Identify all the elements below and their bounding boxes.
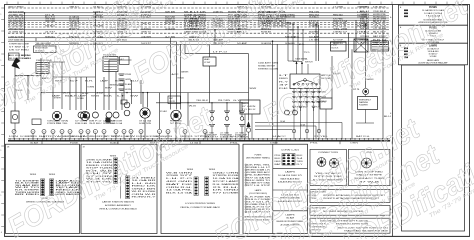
svg-text:R-Y STOP: R-Y STOP <box>333 40 344 42</box>
svg-text:16 GA 16 GA: 16 GA 16 GA <box>213 177 241 180</box>
svg-text:HEAD: HEAD <box>204 58 210 61</box>
svg-text:SW BLU: SW BLU <box>45 26 56 28</box>
svg-text:14 GA PNL: 14 GA PNL <box>166 189 192 192</box>
svg-text:GND DK: GND DK <box>357 7 368 9</box>
svg-text:GRN: GRN <box>87 87 95 89</box>
svg-text:DK BLK: DK BLK <box>373 6 387 8</box>
svg-text:R.H. YEL: R.H. YEL <box>230 136 244 138</box>
svg-text:MARKER: MARKER <box>181 71 189 74</box>
svg-text:462 W-B 30 AM: 462 W-B 30 AM <box>9 10 24 13</box>
svg-text:14 GA BLU: 14 GA BLU <box>285 42 296 45</box>
svg-text:(CLUSTER FEED): (CLUSTER FEED) <box>249 193 267 195</box>
svg-text:YEL BLK: YEL BLK <box>196 100 209 102</box>
svg-text:BLK 14 GA: BLK 14 GA <box>166 192 194 195</box>
svg-text:STOP LAMP: STOP LAMP <box>213 180 241 183</box>
svg-text:21: 21 <box>299 44 305 46</box>
svg-text:W-B ACC: W-B ACC <box>309 16 320 19</box>
svg-text:CLSTR: CLSTR <box>169 101 176 103</box>
svg-text:14401 ASSY TURN: 14401 ASSY TURN <box>258 62 279 65</box>
svg-text:TURN: TURN <box>297 161 304 163</box>
svg-text:CONN C-301: CONN C-301 <box>281 149 299 151</box>
svg-text:DOME RED ACC: DOME RED ACC <box>247 171 271 174</box>
svg-text:LAMP: LAMP <box>78 95 87 98</box>
svg-text:FUSES: FUSES <box>255 155 262 157</box>
svg-text:21 YEL: 21 YEL <box>314 136 328 138</box>
svg-text:21 GRN 640: 21 GRN 640 <box>9 32 25 34</box>
svg-text:WIRES: WIRES <box>209 169 216 171</box>
svg-text:A LIGHT GA) LPS HDR HEADLAMP: A LIGHT GA) LPS HDR HEADLAMP <box>419 62 449 65</box>
svg-text:ORN DOME: ORN DOME <box>45 21 56 23</box>
svg-text:462 GND: 462 GND <box>166 181 194 183</box>
svg-text:16 GA G-Y: 16 GA G-Y <box>429 53 439 56</box>
svg-text:BR 14 GA: BR 14 GA <box>165 22 176 25</box>
svg-text:21 54: 21 54 <box>373 25 388 27</box>
svg-text:LOOKS PRINTED WIRES: LOOKS PRINTED WIRES <box>185 203 216 205</box>
svg-text:SW: SW <box>130 96 139 98</box>
svg-text:L.H. 640: L.H. 640 <box>132 183 156 185</box>
svg-text:FEED: FEED <box>289 30 296 32</box>
svg-text:977 DOME: 977 DOME <box>213 193 241 195</box>
svg-text:MARKER BLU: MARKER BLU <box>261 27 272 30</box>
svg-text:W-R FUSE: W-R FUSE <box>132 191 158 193</box>
svg-text:PNL: PNL <box>310 143 318 145</box>
svg-text:BAT: BAT <box>39 135 48 138</box>
svg-text:30 AM: 30 AM <box>125 83 132 86</box>
svg-text:(INSTRUMENT PANEL): (INSTRUMENT PANEL) <box>246 156 270 159</box>
svg-text:LT GRN: LT GRN <box>333 7 344 9</box>
svg-text:HORN: HORN <box>125 89 132 91</box>
svg-text:PNL IGN: PNL IGN <box>309 11 320 13</box>
svg-text:PNL: PNL <box>275 155 281 157</box>
svg-text:FUSE BR: FUSE BR <box>261 32 272 34</box>
svg-text:298 977: 298 977 <box>166 175 192 177</box>
svg-text:L.H. GRN: L.H. GRN <box>309 40 320 42</box>
svg-text:RED DK: RED DK <box>132 186 158 188</box>
svg-text:DK 57 RED: DK 57 RED <box>9 50 30 52</box>
svg-text:BAT 57 FEED: BAT 57 FEED <box>9 6 25 9</box>
svg-text:54 ACC: 54 ACC <box>272 135 288 138</box>
svg-text:W-R L.H.: W-R L.H. <box>333 26 348 28</box>
svg-text:STRIPE: STRIPE <box>54 98 62 100</box>
svg-text:PNL TURN: PNL TURN <box>218 100 231 102</box>
svg-text:WIRES: WIRES <box>30 174 37 176</box>
svg-text:MARKER LAMPS: MARKER LAMPS <box>427 59 439 62</box>
svg-text:462: 462 <box>96 93 103 95</box>
svg-text:SW BR: SW BR <box>165 11 176 13</box>
svg-text:LP SW: LP SW <box>204 62 210 64</box>
svg-text:LAMPS: LAMPS <box>255 189 262 192</box>
svg-text:54: 54 <box>297 158 303 160</box>
svg-text:W-B FEED: W-B FEED <box>309 32 320 34</box>
svg-text:14 GA FUSE: 14 GA FUSE <box>261 42 272 45</box>
svg-text:R-Y 640 GND: R-Y 640 GND <box>9 26 25 28</box>
svg-text:HEATER: HEATER <box>242 102 250 105</box>
svg-text:SW: SW <box>126 136 136 138</box>
svg-text:LARGE STATION WAGON: LARGE STATION WAGON <box>102 201 135 204</box>
svg-text:37 GRN: 37 GRN <box>242 106 257 108</box>
svg-text:DOME TURN: DOME TURN <box>139 123 152 125</box>
svg-text:GND BR: GND BR <box>132 188 158 190</box>
svg-text:TO BLU: TO BLU <box>242 109 257 111</box>
svg-text:ORN R.H.: ORN R.H. <box>166 187 193 189</box>
svg-text:STRIPE BAT DOME: STRIPE BAT DOME <box>9 43 30 46</box>
svg-text:298: 298 <box>125 74 131 76</box>
svg-text:977 30 AM: 977 30 AM <box>373 27 386 30</box>
svg-text:FEED: FEED <box>279 78 289 80</box>
svg-text:LT P-O: LT P-O <box>213 52 228 54</box>
svg-text:LAMPS: LAMPS <box>285 171 296 174</box>
svg-text:57 SW G-Y: 57 SW G-Y <box>9 47 30 49</box>
svg-text:GND: GND <box>177 77 185 79</box>
svg-text:R.H. MARKER: R.H. MARKER <box>213 183 240 186</box>
svg-text:WIRES: WIRES <box>187 169 194 171</box>
svg-text:W-B: W-B <box>360 28 371 30</box>
svg-text:16 GA R 57: 16 GA R 57 <box>427 47 440 50</box>
svg-text:LAMP: LAMP <box>100 80 109 83</box>
svg-text:BAT 977: BAT 977 <box>205 136 218 139</box>
svg-text:STOP 30 AM GND: STOP 30 AM GND <box>9 39 24 42</box>
svg-text:MARKER GND: MARKER GND <box>285 16 295 19</box>
svg-text:FEED 14 GA: FEED 14 GA <box>110 122 123 125</box>
svg-text:SW: SW <box>105 87 113 89</box>
svg-text:VIEW A, CONNECTOR AND BACK: VIEW A, CONNECTOR AND BACK <box>99 207 138 210</box>
svg-text:37 ORN: 37 ORN <box>357 17 368 19</box>
svg-text:WIRES: WIRES <box>49 174 56 176</box>
svg-text:14 B-A 640: 14 B-A 640 <box>428 50 440 53</box>
svg-text:BLK BAT: BLK BAT <box>357 25 368 28</box>
svg-text:TURN SIGNAL: TURN SIGNAL <box>295 58 308 61</box>
svg-text:DK GND: DK GND <box>213 190 241 192</box>
svg-text:57: 57 <box>70 81 78 83</box>
svg-text:298 640 W-R: 298 640 W-R <box>9 28 25 30</box>
svg-text:HORN R-Y: HORN R-Y <box>132 197 158 199</box>
svg-text:A WIRED ASSEMBLY: A WIRED ASSEMBLY <box>105 204 132 207</box>
svg-text:SW: SW <box>249 88 257 90</box>
svg-text:977 L.H. STOP: 977 L.H. STOP <box>247 185 271 187</box>
svg-text:GRN R-Y: GRN R-Y <box>69 7 80 9</box>
svg-text:16 GA DK: 16 GA DK <box>285 22 296 25</box>
svg-text:HORN: HORN <box>115 81 124 83</box>
svg-text:BLOCK: BLOCK <box>332 48 339 50</box>
svg-text:54 977: 54 977 <box>141 43 151 45</box>
svg-text:FLASHER: FLASHER <box>359 104 368 107</box>
svg-text:54 LAMP: 54 LAMP <box>237 42 248 45</box>
svg-text:ACC TURN: ACC TURN <box>104 135 119 138</box>
svg-text:PNL 30 AM FEED: PNL 30 AM FEED <box>247 174 271 177</box>
svg-text:L.H. TURN: L.H. TURN <box>62 136 77 138</box>
svg-text:FEED: FEED <box>275 161 282 163</box>
svg-text:STEERING COLUMN: STEERING COLUMN <box>258 69 279 71</box>
svg-text:FUSE 30 AM: FUSE 30 AM <box>75 122 87 125</box>
svg-text:R.H.: R.H. <box>85 81 94 83</box>
svg-text:HORN 30 AM L.H.: HORN 30 AM L.H. <box>247 169 271 172</box>
svg-text:DOME 462 HORN: DOME 462 HORN <box>9 36 25 38</box>
svg-text:YEL 298: YEL 298 <box>333 28 347 30</box>
svg-text:ORN W-R: ORN W-R <box>132 194 158 196</box>
svg-text:CONNECTORS: CONNECTORS <box>318 152 339 154</box>
svg-text:298 BLK: 298 BLK <box>373 11 387 13</box>
svg-text:W-B LT DK: W-B LT DK <box>184 11 207 13</box>
svg-text:57 MARKER: 57 MARKER <box>309 25 320 28</box>
svg-text:LT L.H.: LT L.H. <box>357 32 368 34</box>
svg-text:FEED BLK: FEED BLK <box>333 14 344 16</box>
svg-text:L.H. P-O: L.H. P-O <box>166 178 194 180</box>
svg-text:BAT: BAT <box>275 163 281 166</box>
svg-text:L.H. 57: L.H. 57 <box>357 11 367 13</box>
svg-text:14 R-BK: 14 R-BK <box>430 56 438 58</box>
svg-text:BAT DK: BAT DK <box>166 183 195 186</box>
svg-text:STRIPE FUSE: STRIPE FUSE <box>213 175 241 177</box>
svg-text:298 YEL: 298 YEL <box>56 123 68 125</box>
svg-text:14 GA GRN: 14 GA GRN <box>165 27 176 30</box>
svg-text:FUSE: FUSE <box>332 45 338 47</box>
svg-text:21: 21 <box>294 37 300 39</box>
svg-text:GND ORN: GND ORN <box>213 172 241 174</box>
svg-text:ORN 57: ORN 57 <box>333 32 347 34</box>
svg-text:VIEW A, CONNECTOR AND BACK: VIEW A, CONNECTOR AND BACK <box>180 206 221 209</box>
svg-text:21 R.H.: 21 R.H. <box>213 187 241 189</box>
svg-text:DOME: DOME <box>77 98 85 100</box>
svg-text:DOME 21: DOME 21 <box>20 136 34 138</box>
svg-text:W-B GRN: W-B GRN <box>166 172 194 174</box>
svg-text:977 16 GA SW: 977 16 GA SW <box>247 176 270 179</box>
svg-text:W-R BLU: W-R BLU <box>89 123 102 125</box>
svg-text:SIGNAL SWITCH: SIGNAL SWITCH <box>258 65 276 68</box>
svg-text:LAMP: LAMP <box>52 95 61 98</box>
svg-text:14 GA 298: 14 GA 298 <box>21 57 32 60</box>
svg-text:SWITCH: SWITCH <box>305 62 313 64</box>
svg-text:37: 37 <box>279 85 288 87</box>
